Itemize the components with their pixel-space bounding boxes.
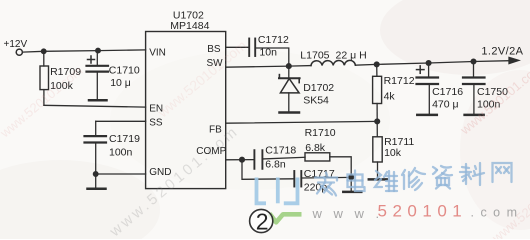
svg-text:C1716: C1716 xyxy=(432,86,463,98)
svg-text:w w w .: w w w . xyxy=(312,206,384,221)
resistor R1709 xyxy=(43,51,45,66)
node circled 2 sheet marker xyxy=(250,209,273,232)
wire GND pin to C1719 xyxy=(96,173,146,175)
watermark logo brackets xyxy=(257,178,298,204)
svg-text:100n: 100n xyxy=(109,146,133,158)
wire C1717 to ground node xyxy=(302,176,351,179)
svg-text:6.8k: 6.8k xyxy=(305,142,326,154)
svg-text:470 μ: 470 μ xyxy=(432,99,459,111)
char jia xyxy=(315,173,337,196)
node junction above C1716 xyxy=(426,61,431,66)
node junction above C1710 xyxy=(96,48,101,53)
svg-text:10 μ: 10 μ xyxy=(110,77,131,89)
node junction COMP xyxy=(240,157,245,162)
svg-text:C1719: C1719 xyxy=(109,133,140,145)
svg-text:R1711: R1711 xyxy=(384,136,414,148)
capacitor C1716 polar xyxy=(428,63,430,76)
char wang xyxy=(493,163,512,182)
node junction below C1719 xyxy=(93,172,98,177)
char zi xyxy=(433,166,452,189)
wire SW pin xyxy=(226,66,289,67)
svg-text:C1712: C1712 xyxy=(258,34,289,46)
output arrow 1.2V/2A xyxy=(509,57,519,63)
svg-text:L1705: L1705 xyxy=(300,50,329,62)
wire FB pin xyxy=(226,121,378,123)
svg-text:2: 2 xyxy=(256,209,269,235)
ground under C1716 xyxy=(417,114,437,117)
svg-text:C1710: C1710 xyxy=(109,64,140,76)
svg-text:6.8n: 6.8n xyxy=(265,158,286,170)
svg-text:C1718: C1718 xyxy=(265,144,296,156)
svg-text:520101: 520101 xyxy=(378,201,468,220)
node junction at diode D1702 xyxy=(286,64,291,69)
watermark blue chinese characters xyxy=(315,163,512,196)
node junction above C1750 xyxy=(471,59,476,64)
wire C1718 to R1710 xyxy=(263,157,305,159)
svg-text:VIN: VIN xyxy=(149,47,166,58)
ground under D1702 xyxy=(280,111,300,114)
ground under C1750 xyxy=(465,114,484,117)
svg-text:D1702: D1702 xyxy=(303,82,334,94)
capacitor C1719 xyxy=(95,121,97,135)
char liao xyxy=(460,163,484,185)
wire COMP down to C1717 xyxy=(242,160,294,180)
wire +12V to VIN xyxy=(23,50,146,52)
resistor R1712 xyxy=(376,64,378,76)
resistor R1710 xyxy=(305,153,330,161)
svg-text:R1710: R1710 xyxy=(305,127,336,139)
capacitor C1712 xyxy=(248,39,250,57)
capacitor C1710 xyxy=(96,51,98,65)
ground under C1719 xyxy=(95,174,97,188)
node junction above R1712 xyxy=(374,62,379,67)
wire output rail xyxy=(355,61,509,65)
svg-text:+12V: +12V xyxy=(4,39,28,50)
wire R1710 to ground node xyxy=(330,157,351,177)
svg-text:. c o m: . c o m xyxy=(471,206,519,220)
capacitor C1717 xyxy=(293,171,295,187)
wire SW node to inductor xyxy=(289,65,311,68)
node junction FB xyxy=(375,119,380,124)
wire BS pin to C1712 xyxy=(226,46,249,48)
char dian xyxy=(348,171,365,192)
svg-text:22 μ H: 22 μ H xyxy=(336,49,367,61)
capacitor C1750 xyxy=(473,62,475,77)
char wei xyxy=(375,171,397,191)
svg-text:R1712: R1712 xyxy=(384,75,415,87)
watermark green swoosh xyxy=(270,214,302,223)
ground under C1710 xyxy=(89,99,107,102)
svg-text:SS: SS xyxy=(149,117,163,128)
capacitor C1718 xyxy=(253,150,255,169)
inductor L1705 22uH xyxy=(311,60,355,65)
svg-text:1.2V/2A: 1.2V/2A xyxy=(481,45,523,57)
char xiu xyxy=(402,168,425,190)
node +12V input terminal xyxy=(16,49,22,55)
wire C1712 to SW node xyxy=(256,48,289,66)
wire SS to C1719 xyxy=(96,120,146,122)
svg-text:4k: 4k xyxy=(384,90,396,102)
node junction above R1709 xyxy=(41,49,46,54)
node junction C1717 R1710 xyxy=(349,175,354,180)
wire EN to R1709 xyxy=(44,105,146,107)
svg-text:10k: 10k xyxy=(384,147,402,159)
op-amp U1702 IC body MP1484 xyxy=(146,32,226,189)
svg-text:MP1484: MP1484 xyxy=(170,20,209,32)
resistor R1711 xyxy=(376,121,378,136)
wire COMP pin xyxy=(226,159,254,161)
ground under C1717 R1710 xyxy=(350,177,352,191)
diode D1702 SK54 schottky xyxy=(288,66,290,77)
ground under R1711 xyxy=(369,178,387,181)
svg-text:10n: 10n xyxy=(259,46,277,58)
svg-text:SK54: SK54 xyxy=(303,94,329,106)
